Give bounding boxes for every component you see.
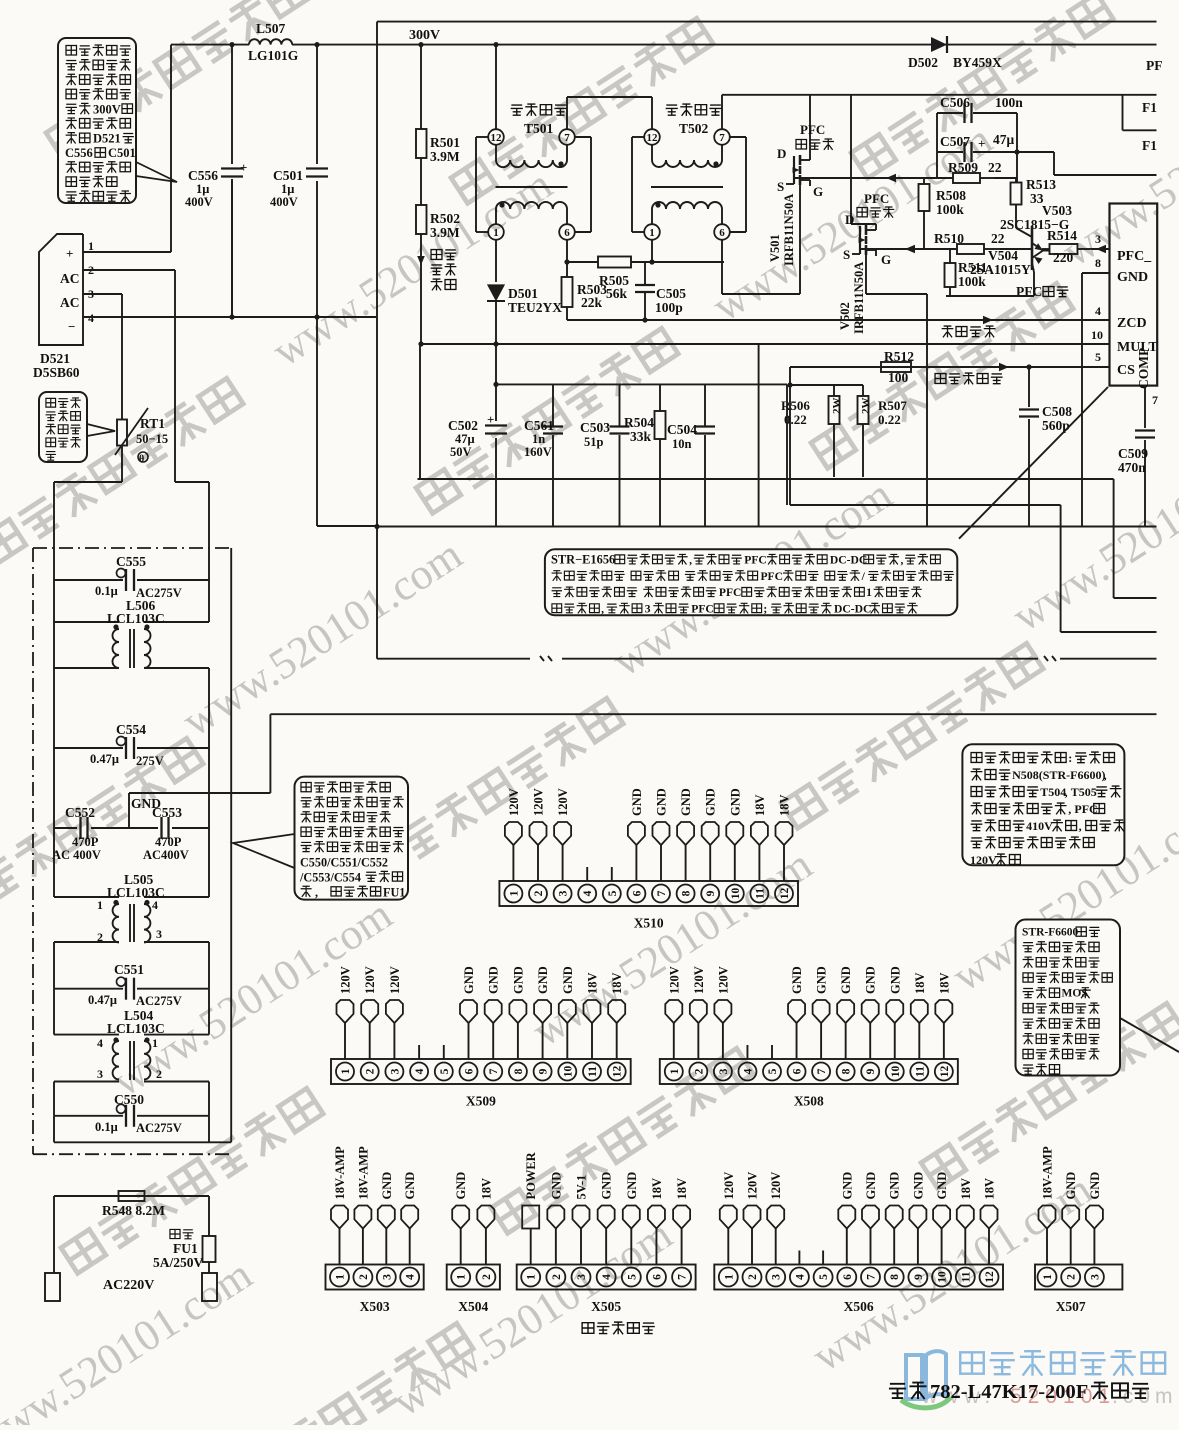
svg-text:AC 400V: AC 400V <box>52 848 101 862</box>
svg-text:GND: GND <box>704 788 718 816</box>
svg-text:AC400V: AC400V <box>143 848 189 862</box>
svg-text:5: 5 <box>626 1274 638 1280</box>
svg-text:6: 6 <box>631 890 643 896</box>
svg-text:C502: C502 <box>448 418 478 433</box>
svg-text:9: 9 <box>705 890 717 896</box>
svg-text:ZCD: ZCD <box>1117 316 1147 331</box>
svg-text:AC275V: AC275V <box>136 994 182 1008</box>
svg-text:LG101G: LG101G <box>248 48 299 63</box>
svg-text:X505: X505 <box>591 1299 621 1314</box>
svg-text:IRFB11N50A: IRFB11N50A <box>782 194 796 266</box>
svg-text:56k: 56k <box>606 286 628 301</box>
svg-text:11: 11 <box>587 1066 599 1077</box>
svg-text:10n: 10n <box>672 437 692 451</box>
svg-text:LCL103C: LCL103C <box>107 1021 165 1036</box>
svg-text:12: 12 <box>612 1066 624 1078</box>
svg-text:7: 7 <box>816 1068 828 1074</box>
svg-text:1: 1 <box>669 1068 681 1074</box>
svg-text:D5SB60: D5SB60 <box>33 365 80 380</box>
svg-text:5: 5 <box>767 1068 779 1074</box>
svg-text:RT1: RT1 <box>140 416 165 431</box>
svg-text:R508: R508 <box>936 188 966 203</box>
svg-text:θ: θ <box>139 454 144 465</box>
svg-text:4: 4 <box>742 1068 754 1074</box>
svg-text:R507: R507 <box>878 398 907 413</box>
svg-text:3.9M: 3.9M <box>430 225 460 240</box>
svg-text:8: 8 <box>889 1274 901 1280</box>
svg-text:GND: GND <box>1117 270 1148 285</box>
svg-text:1: 1 <box>649 227 655 239</box>
svg-text:4: 4 <box>414 1068 426 1074</box>
svg-text:+: + <box>240 160 247 175</box>
svg-text:11: 11 <box>960 1271 972 1282</box>
svg-text:18V: 18V <box>586 972 600 994</box>
svg-text:9: 9 <box>538 1068 550 1074</box>
svg-text:1: 1 <box>335 1274 347 1280</box>
svg-text:1: 1 <box>866 586 872 599</box>
svg-text:9: 9 <box>865 1068 877 1074</box>
svg-text:11: 11 <box>754 888 766 899</box>
svg-text:0.47μ: 0.47μ <box>88 993 117 1007</box>
svg-text:6: 6 <box>464 1068 476 1074</box>
svg-text:R513: R513 <box>1026 177 1056 192</box>
svg-text:T504: T504 <box>1040 785 1066 799</box>
svg-text:C556: C556 <box>65 146 93 160</box>
svg-text:120V: 120V <box>769 1172 783 1200</box>
svg-text:DC-DC: DC-DC <box>830 554 867 567</box>
svg-text:1μ: 1μ <box>281 182 294 196</box>
svg-text:10: 10 <box>890 1066 902 1078</box>
svg-text:+: + <box>487 412 494 427</box>
svg-text:S: S <box>843 247 850 262</box>
svg-text:X509: X509 <box>466 1094 496 1109</box>
svg-text:2: 2 <box>156 1067 162 1081</box>
svg-text:120V: 120V <box>716 966 730 994</box>
svg-text:7: 7 <box>1152 393 1158 407</box>
svg-text:C550/C551/C552: C550/C551/C552 <box>300 856 388 870</box>
svg-text:3: 3 <box>97 1067 103 1081</box>
svg-text:10: 10 <box>1091 328 1103 342</box>
svg-text:120V: 120V <box>970 853 997 867</box>
svg-text:D502: D502 <box>908 55 938 70</box>
svg-text:3: 3 <box>576 1274 588 1280</box>
svg-text:120V: 120V <box>746 1172 760 1200</box>
svg-text:3: 3 <box>156 927 162 941</box>
svg-text:7: 7 <box>564 132 570 144</box>
svg-text:1: 1 <box>152 1036 158 1050</box>
svg-text:5A/250V: 5A/250V <box>153 1255 204 1270</box>
svg-text:GND: GND <box>815 966 829 994</box>
svg-text:9: 9 <box>913 1274 925 1280</box>
svg-text:D: D <box>845 212 854 227</box>
svg-text:12: 12 <box>647 132 659 144</box>
svg-text:160V: 160V <box>524 445 552 459</box>
svg-text:18V: 18V <box>983 1178 997 1200</box>
svg-text:3: 3 <box>718 1068 730 1074</box>
svg-text:STR−E1656: STR−E1656 <box>551 553 615 567</box>
svg-text:400V: 400V <box>270 195 298 209</box>
svg-text:GND: GND <box>561 966 575 994</box>
svg-text:C506: C506 <box>940 95 970 110</box>
svg-text:V503: V503 <box>1042 203 1072 218</box>
svg-text:,: , <box>1079 819 1082 833</box>
svg-text:C550: C550 <box>114 1092 144 1107</box>
svg-text:7: 7 <box>656 890 668 896</box>
svg-text:18V: 18V <box>753 794 767 816</box>
svg-text:0.1μ: 0.1μ <box>95 1120 118 1134</box>
svg-text:D521: D521 <box>93 132 121 146</box>
svg-text:4: 4 <box>152 898 158 912</box>
svg-text:IRFB11N50A: IRFB11N50A <box>852 262 866 334</box>
svg-text:C553: C553 <box>152 805 182 820</box>
svg-text:300V: 300V <box>93 102 121 116</box>
svg-text:GND: GND <box>911 1172 925 1200</box>
svg-text:120V: 120V <box>507 788 521 816</box>
svg-text:GND: GND <box>728 788 742 816</box>
svg-text:PFC: PFC <box>691 602 714 615</box>
svg-text:S: S <box>777 179 784 194</box>
svg-text:18V-AMP: 18V-AMP <box>333 1146 347 1200</box>
svg-text:GND: GND <box>511 966 525 994</box>
svg-text:AC: AC <box>60 295 80 310</box>
svg-text:AC220V: AC220V <box>103 1278 154 1293</box>
svg-text:;: ; <box>763 602 767 615</box>
svg-text:10: 10 <box>730 888 742 900</box>
svg-text:GND: GND <box>462 966 476 994</box>
svg-text:18V: 18V <box>937 972 951 994</box>
svg-text:3.9M: 3.9M <box>430 149 460 164</box>
svg-text:47μ: 47μ <box>455 432 475 446</box>
svg-text:G: G <box>813 184 823 199</box>
svg-text:6: 6 <box>719 227 725 239</box>
svg-text:,: , <box>1065 785 1068 799</box>
svg-text:C555: C555 <box>116 554 146 569</box>
svg-text:PFC: PFC <box>744 554 767 567</box>
svg-text:R514: R514 <box>1047 228 1077 243</box>
svg-text:8: 8 <box>681 890 693 896</box>
svg-text:3: 3 <box>389 1068 401 1074</box>
svg-text:1: 1 <box>340 1068 352 1074</box>
svg-text:R511: R511 <box>958 260 988 275</box>
svg-text:4: 4 <box>601 1274 613 1280</box>
svg-text:22k: 22k <box>581 295 603 310</box>
svg-text:C507: C507 <box>940 134 970 149</box>
svg-text:C504: C504 <box>667 422 697 437</box>
svg-text:GND: GND <box>888 966 902 994</box>
svg-text:782-L47K17-200F: 782-L47K17-200F <box>930 1381 1088 1403</box>
svg-text:F1: F1 <box>1142 100 1157 115</box>
svg-text:4: 4 <box>794 1274 806 1280</box>
svg-text:GND: GND <box>600 1172 614 1200</box>
svg-text:R502: R502 <box>430 211 460 226</box>
svg-text:C561: C561 <box>524 418 554 433</box>
svg-text:7: 7 <box>719 132 725 144</box>
svg-text:4: 4 <box>97 1036 103 1050</box>
svg-text:100p: 100p <box>655 300 683 315</box>
svg-text:C509: C509 <box>1118 446 1148 461</box>
svg-text:8: 8 <box>1095 256 1101 270</box>
svg-text:1: 1 <box>88 239 94 253</box>
svg-text:+: + <box>66 246 73 261</box>
svg-text:4: 4 <box>1095 304 1101 318</box>
svg-text:18V: 18V <box>675 1178 689 1200</box>
svg-text:GND: GND <box>864 1172 878 1200</box>
svg-text:R509: R509 <box>948 160 978 175</box>
svg-text:11: 11 <box>914 1066 926 1077</box>
svg-text:5: 5 <box>439 1068 451 1074</box>
svg-text:22: 22 <box>988 160 1002 175</box>
svg-text:R501: R501 <box>430 135 460 150</box>
svg-text:100k: 100k <box>936 202 964 217</box>
svg-text:T505: T505 <box>1071 785 1097 799</box>
svg-text:12: 12 <box>779 888 791 900</box>
svg-text:120V: 120V <box>667 966 681 994</box>
svg-text:33k: 33k <box>630 429 652 444</box>
svg-text:50V: 50V <box>450 445 472 459</box>
svg-text:R510: R510 <box>934 231 964 246</box>
svg-text:GND: GND <box>454 1172 468 1200</box>
svg-text:X504: X504 <box>458 1299 488 1314</box>
svg-text:10: 10 <box>562 1066 574 1078</box>
svg-text:AC275V: AC275V <box>136 1121 182 1135</box>
svg-text:PFC: PFC <box>864 191 889 206</box>
svg-text:COMP: COMP <box>1136 348 1151 389</box>
svg-text:D521: D521 <box>40 351 70 366</box>
svg-text:1: 1 <box>493 227 499 239</box>
svg-text:12: 12 <box>984 1271 996 1283</box>
svg-text:2: 2 <box>365 1068 377 1074</box>
svg-text:3: 3 <box>381 1274 393 1280</box>
svg-text:7: 7 <box>677 1274 689 1280</box>
svg-text:2: 2 <box>533 890 545 896</box>
svg-text:1n: 1n <box>532 432 545 446</box>
svg-text:X503: X503 <box>360 1299 390 1314</box>
svg-text:R512: R512 <box>884 349 914 364</box>
svg-text:120V: 120V <box>556 788 570 816</box>
svg-text:22: 22 <box>991 231 1005 246</box>
svg-text:47μ: 47μ <box>993 132 1015 147</box>
svg-text:R548 8.2M: R548 8.2M <box>102 1203 165 1218</box>
svg-text:2W: 2W <box>831 398 843 415</box>
svg-text:2W: 2W <box>860 398 872 415</box>
svg-text:PFC: PFC <box>719 586 742 599</box>
svg-text:6: 6 <box>842 1274 854 1280</box>
svg-text:12: 12 <box>939 1066 951 1078</box>
svg-text:CS: CS <box>1117 363 1135 378</box>
svg-text:2: 2 <box>747 1274 759 1280</box>
svg-text::: : <box>1068 751 1072 765</box>
svg-text:120V: 120V <box>363 966 377 994</box>
svg-text:GND: GND <box>935 1172 949 1200</box>
svg-text:5: 5 <box>818 1274 830 1280</box>
svg-text:FU1: FU1 <box>173 1241 198 1256</box>
svg-text:X506: X506 <box>844 1299 874 1314</box>
svg-text:275V: 275V <box>136 754 164 768</box>
svg-text:GND: GND <box>625 1172 639 1200</box>
svg-text:PFC_: PFC_ <box>1117 249 1152 264</box>
svg-text:GND: GND <box>790 966 804 994</box>
svg-text:300V: 300V <box>409 28 440 43</box>
svg-text:−: − <box>68 319 75 334</box>
svg-text:100: 100 <box>888 370 909 385</box>
svg-text:C554: C554 <box>116 722 146 737</box>
svg-text:470P: 470P <box>155 835 182 849</box>
svg-text:,: , <box>601 602 604 615</box>
svg-text:GND: GND <box>536 966 550 994</box>
svg-text:100k: 100k <box>958 274 986 289</box>
svg-text:+: + <box>978 136 985 151</box>
svg-text:,: , <box>689 554 692 567</box>
svg-text:6: 6 <box>651 1274 663 1280</box>
svg-text:18V: 18V <box>479 1178 493 1200</box>
svg-text:4: 4 <box>405 1274 417 1280</box>
svg-text:18V: 18V <box>650 1178 664 1200</box>
svg-text:GND: GND <box>380 1172 394 1200</box>
svg-text:X507: X507 <box>1056 1299 1086 1314</box>
svg-text:18V-AMP: 18V-AMP <box>356 1146 370 1200</box>
svg-text:C501: C501 <box>273 168 303 183</box>
svg-text:T502: T502 <box>679 121 709 136</box>
svg-text:0.1μ: 0.1μ <box>95 584 118 598</box>
svg-text:STR-F6600: STR-F6600 <box>1022 927 1078 939</box>
svg-text:L507: L507 <box>256 21 286 36</box>
svg-text:G: G <box>881 252 891 267</box>
svg-text:PFC: PFC <box>760 570 783 583</box>
svg-text:,: , <box>901 554 904 567</box>
svg-text:120V: 120V <box>532 788 546 816</box>
svg-text:10: 10 <box>937 1271 949 1283</box>
svg-text:V501: V501 <box>768 234 782 262</box>
svg-text:120V: 120V <box>692 966 706 994</box>
svg-text:R506: R506 <box>781 398 810 413</box>
svg-text:GND: GND <box>679 788 693 816</box>
svg-text:6: 6 <box>792 1068 804 1074</box>
svg-text:GND: GND <box>1064 1172 1078 1200</box>
svg-text:C503: C503 <box>580 420 610 435</box>
svg-text:C501: C501 <box>108 146 136 160</box>
svg-text:GND: GND <box>840 1172 854 1200</box>
svg-text:GND: GND <box>864 966 878 994</box>
svg-text:GND: GND <box>487 966 501 994</box>
svg-text:120V: 120V <box>388 966 402 994</box>
svg-text:18V: 18V <box>610 972 624 994</box>
svg-text:120V: 120V <box>339 966 353 994</box>
svg-text:1: 1 <box>456 1274 468 1280</box>
svg-text:V504: V504 <box>988 248 1018 263</box>
svg-text:GND: GND <box>549 1172 563 1200</box>
svg-text:7: 7 <box>488 1068 500 1074</box>
svg-text:3: 3 <box>1089 1274 1101 1280</box>
svg-text:5: 5 <box>1095 350 1101 364</box>
svg-text:X510: X510 <box>634 916 664 931</box>
svg-text:2: 2 <box>481 1274 493 1280</box>
svg-text:5V-1: 5V-1 <box>575 1175 589 1200</box>
svg-text:C508: C508 <box>1042 404 1072 419</box>
svg-text:AC: AC <box>60 271 80 286</box>
svg-text:,: , <box>315 885 318 899</box>
svg-text:6: 6 <box>564 227 570 239</box>
svg-text:R504: R504 <box>624 415 654 430</box>
svg-text:4: 4 <box>582 890 594 896</box>
svg-text:PF: PF <box>1146 58 1163 73</box>
svg-text:/C553/C554: /C553/C554 <box>299 870 361 884</box>
svg-text:18V: 18V <box>778 794 792 816</box>
svg-text:C552: C552 <box>65 805 95 820</box>
svg-text:D501: D501 <box>508 286 538 301</box>
svg-text:400V: 400V <box>185 195 213 209</box>
svg-text:3: 3 <box>645 602 651 615</box>
svg-text:DC-DC: DC-DC <box>834 602 871 615</box>
svg-text:100n: 100n <box>995 95 1023 110</box>
svg-text:F1: F1 <box>1142 138 1157 153</box>
svg-text:0.47μ: 0.47μ <box>90 752 119 766</box>
svg-text:1: 1 <box>1042 1274 1054 1280</box>
svg-text:470n: 470n <box>1118 460 1146 475</box>
svg-text:51p: 51p <box>584 435 604 449</box>
svg-text:PFC: PFC <box>800 122 825 137</box>
svg-text:1: 1 <box>508 890 520 896</box>
svg-text:C551: C551 <box>114 962 144 977</box>
svg-text:1μ: 1μ <box>196 182 209 196</box>
svg-text:8: 8 <box>841 1068 853 1074</box>
svg-text:BY459X: BY459X <box>953 55 1002 70</box>
svg-text:C505: C505 <box>656 286 686 301</box>
svg-text:GND: GND <box>888 1172 902 1200</box>
svg-text:GND: GND <box>839 966 853 994</box>
svg-text:N508(STR-F6600): N508(STR-F6600) <box>1012 768 1105 782</box>
svg-text:8: 8 <box>513 1068 525 1074</box>
svg-text:2: 2 <box>693 1068 705 1074</box>
svg-text:T501: T501 <box>524 121 554 136</box>
svg-text:GND: GND <box>403 1172 417 1200</box>
svg-text:1: 1 <box>526 1274 538 1280</box>
svg-text:4: 4 <box>88 311 94 325</box>
svg-text:V502: V502 <box>838 302 852 330</box>
svg-text:POWER: POWER <box>524 1151 538 1199</box>
svg-text:410V: 410V <box>1026 819 1053 833</box>
svg-text:GND: GND <box>655 788 669 816</box>
svg-text:GND: GND <box>630 788 644 816</box>
svg-text:470P: 470P <box>72 835 99 849</box>
svg-text:0.22: 0.22 <box>878 412 901 427</box>
svg-text:GND: GND <box>1088 1172 1102 1200</box>
svg-text:2: 2 <box>1066 1274 1078 1280</box>
svg-text:2: 2 <box>551 1274 563 1280</box>
svg-text:7: 7 <box>866 1274 878 1280</box>
svg-text:LCL103C: LCL103C <box>107 611 165 626</box>
svg-text:50−15: 50−15 <box>136 432 168 446</box>
svg-text:12: 12 <box>491 132 503 144</box>
svg-text:2: 2 <box>358 1274 370 1280</box>
svg-text:3: 3 <box>1095 232 1101 246</box>
svg-text:C556: C556 <box>188 168 218 183</box>
svg-text:120V: 120V <box>722 1172 736 1200</box>
svg-text:1: 1 <box>97 898 103 912</box>
svg-text:FU1: FU1 <box>383 885 405 899</box>
svg-text:5: 5 <box>607 890 619 896</box>
svg-text:18V: 18V <box>913 972 927 994</box>
svg-text:220: 220 <box>1053 250 1074 265</box>
svg-text:18V-AMP: 18V-AMP <box>1041 1146 1055 1200</box>
svg-text:,: , <box>1068 802 1071 816</box>
svg-text:3: 3 <box>558 890 570 896</box>
svg-text:3: 3 <box>771 1274 783 1280</box>
svg-text:TEU2YX: TEU2YX <box>508 300 562 315</box>
svg-text:X508: X508 <box>794 1094 824 1109</box>
svg-text:D: D <box>777 146 786 161</box>
svg-text:18V: 18V <box>959 1178 973 1200</box>
svg-text:1: 1 <box>723 1274 735 1280</box>
